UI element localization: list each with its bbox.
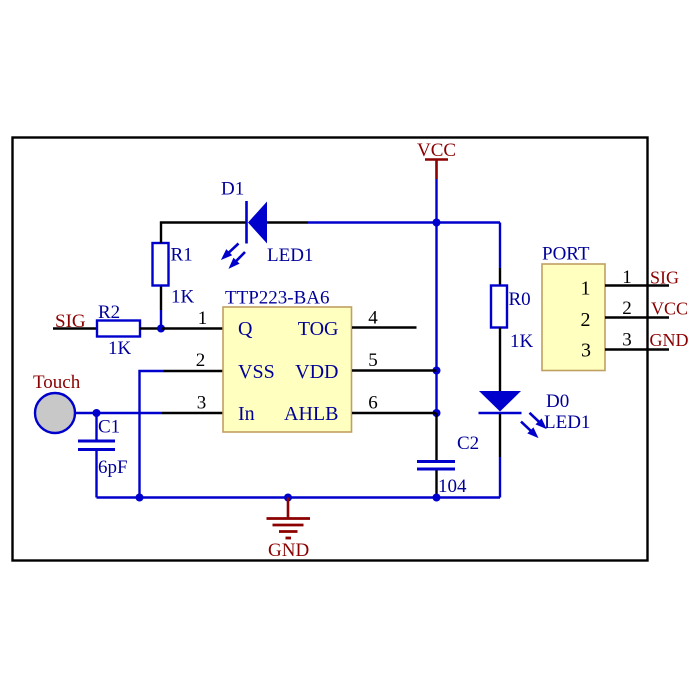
wire top corner down to R0: [499, 223, 501, 269]
node H junction C1: [93, 409, 101, 417]
svg-text:6: 6: [368, 393, 378, 414]
svg-text:TTP223-BA6: TTP223-BA6: [225, 288, 330, 309]
wire pin 3 stub: [162, 412, 224, 414]
wire R0 to D0: [499, 328, 501, 392]
svg-text:2: 2: [581, 309, 591, 331]
wire pin 4 TOG no-connect: [352, 326, 417, 328]
ground GND: [267, 498, 311, 562]
svg-text:1K: 1K: [108, 338, 132, 359]
wire D0 to bottom net corner: [499, 457, 501, 498]
wire bottom GND net: [97, 496, 501, 498]
svg-text:6pF: 6pF: [98, 457, 128, 478]
node B junction: [433, 219, 441, 227]
resistor R2: [97, 321, 140, 337]
power VCC: [417, 140, 456, 179]
svg-text:R0: R0: [509, 289, 531, 310]
wire touch pad to pin 3: [75, 412, 162, 414]
wire R0 top stub: [499, 268, 501, 286]
svg-text:104: 104: [438, 476, 467, 497]
svg-text:C2: C2: [457, 433, 479, 454]
resistor R1: [153, 243, 169, 286]
node E junction C2 bottom: [433, 494, 441, 502]
svg-text:R1: R1: [171, 245, 193, 266]
svg-text:1K: 1K: [171, 287, 195, 308]
svg-text:1K: 1K: [510, 331, 534, 352]
wire pin 5 VDD: [352, 369, 437, 371]
wire R1 top to D1 anode: [161, 223, 246, 244]
svg-text:Touch: Touch: [33, 372, 81, 393]
wire C2 to bottom net: [435, 471, 437, 498]
capacitor C2: [417, 462, 455, 470]
node G junction ground: [284, 494, 292, 502]
svg-text:LED1: LED1: [267, 245, 313, 266]
wire SIG to R2: [53, 327, 97, 329]
touch pad: [35, 393, 75, 433]
PORT pin 2 wire: [605, 316, 669, 318]
svg-text:4: 4: [368, 308, 378, 329]
svg-text:D0: D0: [546, 391, 569, 412]
wire node A to pin 1 Q: [161, 327, 224, 329]
resistor R0: [491, 286, 507, 328]
svg-text:PORT: PORT: [542, 244, 590, 265]
svg-text:VSS: VSS: [238, 361, 275, 383]
wire pin 2 stub: [163, 370, 224, 372]
svg-text:2: 2: [196, 350, 206, 371]
LED D0: [479, 391, 546, 437]
wire D1 cathode stub: [267, 221, 308, 223]
svg-text:C1: C1: [98, 417, 120, 438]
svg-text:In: In: [238, 403, 255, 425]
wire pin 2 to bottom net: [140, 371, 164, 498]
wire R2 to node A: [140, 327, 161, 329]
svg-text:1: 1: [581, 278, 591, 300]
wire node B down to node C: [435, 223, 437, 371]
svg-text:Q: Q: [238, 318, 253, 340]
wire R1 bottom stub: [160, 286, 162, 311]
svg-text:5: 5: [368, 350, 378, 371]
wire node C to node D: [435, 371, 437, 414]
svg-text:AHLB: AHLB: [284, 403, 338, 425]
svg-text:3: 3: [197, 393, 207, 414]
svg-text:1: 1: [622, 267, 632, 288]
svg-text:SIG: SIG: [650, 268, 679, 288]
svg-text:D1: D1: [221, 179, 244, 200]
wire node A up to R1: [160, 310, 162, 329]
svg-text:VCC: VCC: [651, 299, 688, 319]
node A junction: [157, 325, 165, 333]
capacitor C1: [78, 441, 115, 450]
LED D1: [223, 201, 268, 267]
PORT pin 3 wire: [605, 348, 669, 350]
PORT pin 1 wire: [605, 284, 669, 286]
node D junction pin 6: [433, 409, 441, 417]
op-amp U1 TTP223-BA6 body: [223, 307, 352, 432]
wire C1 to bottom net: [95, 451, 97, 498]
svg-text:2: 2: [622, 298, 632, 319]
svg-text:1: 1: [198, 308, 208, 329]
node F junction VSS drop: [136, 494, 144, 502]
wire node D to C2: [435, 413, 437, 460]
connector PORT body: [542, 264, 605, 371]
wire pin 6 AHLB: [352, 412, 437, 414]
svg-text:VDD: VDD: [295, 361, 338, 383]
svg-text:3: 3: [622, 330, 632, 351]
svg-text:LED1: LED1: [544, 412, 590, 433]
node C junction pin 5: [433, 367, 441, 375]
svg-text:3: 3: [581, 340, 591, 362]
svg-text:VCC: VCC: [417, 140, 456, 161]
svg-text:GND: GND: [650, 330, 689, 350]
svg-text:GND: GND: [268, 540, 309, 561]
svg-text:R2: R2: [98, 302, 120, 323]
wire D0 cathode stub: [499, 414, 501, 457]
wire node H to C1: [95, 413, 97, 440]
svg-text:TOG: TOG: [298, 318, 339, 340]
wire VCC to node B: [435, 179, 437, 223]
wire D1 to VCC node and R0 corner: [308, 221, 500, 223]
